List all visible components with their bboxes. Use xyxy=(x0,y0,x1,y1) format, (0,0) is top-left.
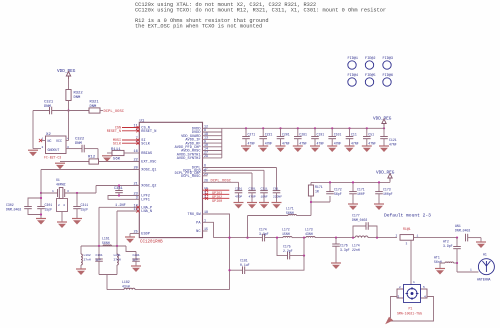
wire to L162 xyxy=(80,246,82,254)
wire ESDP down xyxy=(129,234,131,238)
svg-text:C171: C171 xyxy=(357,188,365,192)
wire to C321 xyxy=(33,110,50,112)
wire X2 pin 4 xyxy=(66,140,69,142)
svg-text:R111: R111 xyxy=(111,148,121,152)
svg-text:P1: P1 xyxy=(409,307,413,311)
label L161 xyxy=(102,237,110,246)
wire R111 to RBIAS xyxy=(124,152,139,154)
svg-text:25: 25 xyxy=(133,231,137,235)
svg-text:GPIO0: GPIO0 xyxy=(212,200,222,204)
svg-text:C201: C201 xyxy=(133,254,140,257)
ground at C311 xyxy=(259,203,269,209)
capacitor C161 xyxy=(95,259,103,261)
wire C191 to ground xyxy=(314,139,316,146)
inductor L162 xyxy=(81,254,82,265)
wire rail to C191 xyxy=(314,128,316,136)
wire U1 pin 3 GPIO2 xyxy=(203,193,230,195)
wire C173 to ground xyxy=(378,194,380,204)
svg-text:4: 4 xyxy=(424,296,426,299)
label C201 balun xyxy=(133,254,140,262)
svg-text:R12: R12 xyxy=(88,156,96,160)
connector P1 body xyxy=(404,285,421,303)
svg-text:L173: L173 xyxy=(305,228,313,232)
wire LNA_P down xyxy=(98,207,100,246)
junction C175/C181 xyxy=(303,255,305,257)
svg-text:AT2: AT2 xyxy=(443,240,449,244)
ground at C101 xyxy=(327,146,337,152)
junction balun LNA_N xyxy=(116,245,118,247)
label L201 xyxy=(114,254,121,262)
junction AT1 xyxy=(456,262,458,264)
fiducial FID@2 xyxy=(365,56,376,69)
wire C175 loop right xyxy=(290,238,304,256)
label AT1 xyxy=(434,256,442,265)
ground at C11 xyxy=(345,146,355,152)
junction X1 left node xyxy=(40,192,42,194)
capacitor AN1 xyxy=(466,234,468,242)
junction C221 xyxy=(262,127,264,129)
wire DCPL_VCO down to cap xyxy=(263,170,265,190)
label AT2 xyxy=(443,240,453,249)
wire C101 to ground xyxy=(331,139,333,146)
wire rail to C11 xyxy=(349,128,351,136)
wire PA xyxy=(203,222,214,237)
wire U1 pin 24 stub xyxy=(203,175,208,177)
wire L173 to L174 xyxy=(315,237,355,239)
note text block xyxy=(135,2,386,30)
wire R171 node to C172 bottom xyxy=(311,201,330,203)
svg-text:47NF: 47NF xyxy=(265,141,273,145)
wire to C311 xyxy=(76,193,78,207)
wire TRX to C181 xyxy=(230,269,243,271)
svg-text:470P: 470P xyxy=(235,196,242,199)
svg-text:2.2pF: 2.2pF xyxy=(283,249,293,253)
ground at C291 xyxy=(234,203,244,209)
wire DCPL_XOSC down to cap xyxy=(238,182,240,190)
svg-text:1pF: 1pF xyxy=(96,259,102,262)
wire C175 loop left xyxy=(277,238,288,256)
svg-text:C302: C302 xyxy=(6,203,14,207)
svg-text:DNM: DNM xyxy=(75,142,83,146)
junction C181 line xyxy=(228,269,230,271)
wire C322 to elbow xyxy=(84,148,98,150)
wire U1 pin 9 AVDD_RF to VDD bus xyxy=(203,142,222,144)
wire rail to C101 xyxy=(331,128,333,136)
svg-text:40MHZ: 40MHZ xyxy=(56,183,66,187)
svg-text:GNDOUT: GNDOUT xyxy=(48,148,60,152)
capacitor C181 xyxy=(243,266,245,274)
wire net MOSI to U1 xyxy=(122,139,139,141)
capacitor C175 xyxy=(288,252,290,260)
svg-text:SCLK: SCLK xyxy=(113,142,122,146)
svg-text:2: 2 xyxy=(42,146,44,149)
ground at C201 balun xyxy=(131,266,141,272)
svg-text:DCPL_XOSC: DCPL_XOSC xyxy=(211,179,232,183)
junction AT2 branch xyxy=(456,237,458,239)
wire U1 pin 6 DCPL xyxy=(203,167,277,169)
capacitor C291 xyxy=(235,191,243,193)
wire TRX_SW down to bottom xyxy=(229,270,231,289)
svg-text:RESET_N: RESET_N xyxy=(141,130,156,134)
wire C176 to ground xyxy=(335,246,337,263)
svg-text:1: 1 xyxy=(52,190,54,193)
svg-text:1: 1 xyxy=(413,281,415,284)
svg-text:CC120x using TCXO: do not moun: CC120x using TCXO: do not mount R12, R32… xyxy=(135,8,386,14)
wire U1 pin 29 AVDD_SYNTH2 to VDD bus xyxy=(203,157,222,159)
wire C321 to node xyxy=(52,110,69,112)
wire balun bottom rail xyxy=(99,274,117,276)
wire bottom to L182 xyxy=(107,289,124,291)
power symbol VDD_REG rail xyxy=(382,119,386,127)
ground at C61 xyxy=(272,203,282,209)
wire LNA_P xyxy=(99,206,139,208)
svg-text:4: 4 xyxy=(63,204,65,207)
wire C177 loop left xyxy=(353,226,366,238)
wire C301 to ground xyxy=(40,209,42,219)
wire xyxy=(68,79,70,90)
wire to C176 xyxy=(335,238,337,244)
ground at X2 pin 2 xyxy=(28,150,38,156)
svg-text:VDD_REG: VDD_REG xyxy=(376,171,395,176)
wire rail to C281 xyxy=(297,128,299,136)
svg-text:C181: C181 xyxy=(240,259,248,263)
svg-text:DNM_0402: DNM_0402 xyxy=(352,218,367,222)
connector P1 right tab xyxy=(421,289,428,298)
wire LNA_N xyxy=(117,210,139,212)
inductor L201 xyxy=(117,254,118,265)
svg-text:3: 3 xyxy=(406,243,408,246)
svg-text:DNM: DNM xyxy=(44,105,52,109)
svg-text:2: 2 xyxy=(396,235,398,238)
svg-text:C176: C176 xyxy=(340,244,348,248)
svg-text:47NF: 47NF xyxy=(248,141,256,145)
wire to C161 xyxy=(98,246,100,259)
svg-text:EXT_OSC: EXT_OSC xyxy=(141,161,156,165)
crystal X1 case xyxy=(57,199,68,212)
ground at AT1 xyxy=(435,269,445,275)
svg-text:21: 21 xyxy=(133,183,137,187)
ground at L162 xyxy=(76,269,86,275)
label C175 xyxy=(283,245,293,254)
capacitor C51 xyxy=(363,137,371,139)
label C177 xyxy=(352,214,367,223)
wire C181 to RF riser xyxy=(245,256,304,271)
capacitor C321 xyxy=(50,107,52,115)
pin mark LNA_N xyxy=(136,209,139,212)
svg-text:100P: 100P xyxy=(357,192,365,196)
capacitor C191 xyxy=(311,137,319,139)
capacitor C172 xyxy=(326,192,334,194)
svg-text:56NH: 56NH xyxy=(286,211,294,215)
svg-text:FC-B2T-C3: FC-B2T-C3 xyxy=(44,156,61,160)
wire AN1 to ground xyxy=(468,237,481,239)
capacitor C177 xyxy=(366,222,368,230)
inductor L171 xyxy=(288,214,297,215)
inductor L174 xyxy=(355,236,368,238)
svg-text:DNM: DNM xyxy=(74,96,82,100)
wire U1 pin 10 GPIO3 xyxy=(203,189,230,191)
capacitor C11 xyxy=(346,137,354,139)
wire rail to C172 xyxy=(329,182,331,191)
junction X1 right node xyxy=(76,192,78,194)
connector P1 coax symbol xyxy=(406,287,419,300)
wire C121 to ground xyxy=(383,139,385,146)
wire rail to C201 xyxy=(280,128,282,136)
svg-text:3: 3 xyxy=(67,190,69,193)
svg-text:TRX_SW: TRX_SW xyxy=(188,213,202,217)
inductor L173 xyxy=(306,236,315,237)
wire to L201 xyxy=(116,246,118,254)
wire net SCLK to U1 xyxy=(122,142,139,144)
wire U1 pin 5 DCPL_PFD_CHP xyxy=(203,172,253,174)
svg-text:47NF: 47NF xyxy=(299,141,307,145)
fiducial FID@6 xyxy=(383,73,394,86)
svg-text:C161: C161 xyxy=(96,254,103,257)
ground at C221 xyxy=(258,146,268,152)
pin mark GPIO3 xyxy=(205,189,208,192)
wire U1 pin 13 AVDD_IF to VDD bus xyxy=(203,138,222,140)
wire C301 to ground xyxy=(251,193,253,203)
svg-text:RESET_N: RESET_N xyxy=(107,130,121,134)
wire VDD_PA rail xyxy=(311,181,390,183)
svg-text:47NF: 47NF xyxy=(334,141,342,145)
capacitor C201 xyxy=(277,137,285,139)
svg-text:XOSC_Q2: XOSC_Q2 xyxy=(141,185,156,189)
crystal X1 xyxy=(58,188,65,199)
svg-text:the EXT_OSC pin when TCXO is n: the EXT_OSC pin when TCXO is not mounted xyxy=(135,24,262,30)
pin mark LNA_P xyxy=(136,206,139,209)
svg-text:2: 2 xyxy=(204,194,206,198)
svg-text:VCC: VCC xyxy=(56,139,62,143)
wire U1 pin 8 DVDD to VDD bus xyxy=(203,131,222,133)
svg-text:27nH: 27nH xyxy=(114,259,121,262)
wire P1 pin 4 to chassis xyxy=(391,297,434,322)
capacitor C311 xyxy=(260,191,268,193)
svg-text:VDD_REG: VDD_REG xyxy=(57,69,76,74)
label C176 xyxy=(340,244,350,253)
wire rail to C51 xyxy=(366,128,368,136)
svg-text:R322: R322 xyxy=(74,92,84,96)
wire to L171 xyxy=(248,215,289,217)
wire C311 to ground xyxy=(263,193,265,203)
wire X2 pin 1 stub xyxy=(41,140,46,142)
wire to antenna A1 xyxy=(457,271,478,273)
resistor R321 xyxy=(89,108,100,113)
wire AT1 to ground xyxy=(440,263,445,269)
wire R321 out xyxy=(100,110,103,112)
svg-text:X1: X1 xyxy=(56,178,60,182)
svg-text:NC: NC xyxy=(196,230,200,234)
junction C331 top xyxy=(118,184,120,186)
capacitor C221 xyxy=(259,137,267,139)
wire ground to R111 xyxy=(107,152,112,154)
label C301 xyxy=(45,203,53,212)
wire balun top rail xyxy=(81,245,126,247)
U1 right pin names and numbers xyxy=(175,125,208,235)
wire C201 to ground xyxy=(135,261,137,266)
junction TRX_SW on RF line xyxy=(228,237,230,239)
ground at R12 xyxy=(55,163,65,169)
svg-text:2: 2 xyxy=(58,204,60,207)
junction C201 xyxy=(279,127,281,129)
junction C175 left xyxy=(276,237,278,239)
wire C201 to ground xyxy=(280,139,282,146)
svg-text:C121: C121 xyxy=(389,138,397,142)
svg-text:CC1201RHB: CC1201RHB xyxy=(140,241,163,245)
svg-text:47NF: 47NF xyxy=(351,141,359,145)
U1 left pin names and numbers xyxy=(133,125,156,237)
svg-text:47NF: 47NF xyxy=(317,141,325,145)
junction C121 xyxy=(383,127,385,129)
svg-text:5: 5 xyxy=(423,286,425,289)
ground at ESDP xyxy=(125,237,135,243)
wire XOSC_Q2 down xyxy=(95,186,97,194)
wire C311 to ground xyxy=(76,209,78,219)
wire to C302 xyxy=(28,198,41,207)
capacitor C311 (XTAL) xyxy=(73,207,81,209)
wire X1 pin 3 to XOSC_Q2 xyxy=(65,192,96,194)
svg-text:C61: C61 xyxy=(273,187,279,190)
svg-text:L162: L162 xyxy=(84,254,91,257)
ground at C173 xyxy=(374,204,384,210)
wire to C201 balun xyxy=(126,246,136,252)
svg-text:X2: X2 xyxy=(46,133,51,137)
junction C51 xyxy=(366,127,368,129)
svg-text:DNM_0402: DNM_0402 xyxy=(6,208,21,212)
wire rail to C221 xyxy=(262,128,264,136)
junction C172 xyxy=(329,181,331,183)
wire LPF2 LPF1 loop xyxy=(108,196,139,200)
resistor R111 xyxy=(112,150,124,155)
junction C271 xyxy=(245,127,247,129)
wire node down to X2 pin 4 xyxy=(68,111,70,141)
ground at C201 xyxy=(276,146,286,152)
capacitor C173 xyxy=(375,192,383,194)
svg-text:Default mount 2-3: Default mount 2-3 xyxy=(384,213,431,219)
svg-text:C191: C191 xyxy=(317,133,325,137)
svg-text:1R: 1R xyxy=(315,190,319,194)
svg-text:U1: U1 xyxy=(140,119,145,123)
label C321 xyxy=(44,101,54,110)
svg-text:RBIAS: RBIAS xyxy=(141,152,152,156)
wire C331 to LPF2 xyxy=(118,193,120,196)
wire to AT2 xyxy=(456,238,458,247)
P1 pin numbers xyxy=(398,286,427,299)
svg-text:100pF: 100pF xyxy=(383,192,393,196)
wire C11 to ground xyxy=(349,139,351,146)
wire elbow down to EXT_OSC net xyxy=(97,149,99,162)
svg-text:VDD_REG: VDD_REG xyxy=(373,117,392,122)
wire VDD_REG to rail xyxy=(383,127,385,129)
wire C321 left to X2 pin 2 xyxy=(32,111,34,149)
wire rail to C173 xyxy=(378,182,380,191)
label R321 xyxy=(90,101,100,110)
svg-text:15NH: 15NH xyxy=(282,232,290,236)
wire DCPL down to cap xyxy=(276,168,278,191)
svg-text:470P: 470P xyxy=(249,196,256,199)
wire C51 to ground xyxy=(366,139,368,146)
pin mark SCLK xyxy=(136,142,139,145)
label L174 xyxy=(352,244,360,253)
wire TRX_SW xyxy=(203,214,230,270)
wire ground to R12 xyxy=(60,161,89,163)
svg-text:LPF1: LPF1 xyxy=(141,199,150,203)
wire C171 to ground xyxy=(352,194,354,204)
svg-text:16: 16 xyxy=(133,150,137,154)
wire VDD bus vertical xyxy=(221,128,223,158)
wire U1 pin 17 DCPL_VCO xyxy=(203,169,265,171)
ground at C171 xyxy=(348,204,358,210)
svg-text:56nH: 56nH xyxy=(434,260,442,264)
label C173 xyxy=(383,188,393,197)
X2 pin numbers xyxy=(42,138,70,150)
junction C191 xyxy=(314,127,316,129)
capacitor AT2 xyxy=(453,247,461,249)
svg-text:27nH: 27nH xyxy=(84,259,91,262)
svg-text:C331: C331 xyxy=(114,187,123,191)
capacitor C101 xyxy=(328,137,336,139)
svg-text:AVDD_SYNTH2: AVDD_SYNTH2 xyxy=(177,157,201,161)
wire VDD_REG rail xyxy=(222,127,384,129)
wire RF line up to L171 xyxy=(247,216,249,238)
oscillator X2 body xyxy=(46,136,67,154)
wire U1 pin 19 VDD_GUARD to VDD bus xyxy=(203,135,222,137)
svg-text:C271: C271 xyxy=(248,133,256,137)
wire VDD_REG to PA rail xyxy=(389,181,391,182)
ground at C281 xyxy=(293,146,303,152)
wire RF line PA to C174 xyxy=(214,237,263,239)
wire up to R171 xyxy=(310,196,312,216)
pin mark GPIO0 xyxy=(205,197,208,200)
label C181 xyxy=(240,259,250,268)
wire DCPL_PFD_CHP down to cap xyxy=(251,173,253,191)
capacitor C201 (balun) xyxy=(132,259,140,261)
svg-text:LNA_N: LNA_N xyxy=(141,210,152,214)
svg-text:L161: L161 xyxy=(102,237,110,241)
wire L162 to ground xyxy=(80,265,82,269)
R181 pin numbers xyxy=(396,235,419,246)
wire L201 to bottom rail xyxy=(116,265,118,275)
svg-text:1: 1 xyxy=(417,235,419,238)
label C322 xyxy=(75,138,85,147)
wire node to R321 xyxy=(69,110,90,112)
wire U1 pin 2 GPIO0 xyxy=(203,197,230,199)
fiducial FID@5 xyxy=(365,73,376,86)
svg-text:47NF: 47NF xyxy=(389,143,397,147)
svg-text:2: 2 xyxy=(399,286,401,289)
power symbol VDD_REG PA xyxy=(388,174,392,182)
fiducial FID@1 xyxy=(348,56,359,69)
wire U1 pin 27 AVDD_SYNTH1 to VDD bus xyxy=(203,153,222,155)
capacitor C271 xyxy=(242,137,250,139)
wire to C301 xyxy=(40,193,42,207)
svg-text:1: 1 xyxy=(470,269,472,272)
svg-text:C311: C311 xyxy=(261,187,268,190)
label L171 xyxy=(286,207,294,216)
svg-text:C291: C291 xyxy=(235,187,242,190)
no-connect X at X2 pin 1 xyxy=(39,139,42,142)
junction R171 bottom xyxy=(310,201,312,203)
svg-text:ANTENNA: ANTENNA xyxy=(477,278,490,282)
svg-text:C301: C301 xyxy=(45,203,53,207)
inductor L172 xyxy=(283,236,292,237)
wire R322 to node xyxy=(68,101,70,111)
svg-text:C281: C281 xyxy=(299,133,307,137)
wire AN1 ground down xyxy=(480,238,482,242)
svg-text:15pF: 15pF xyxy=(81,208,89,212)
wire U1 pin 10 AVDD_PFD_CHP to VDD bus xyxy=(203,146,222,148)
ground at C51 xyxy=(362,146,372,152)
